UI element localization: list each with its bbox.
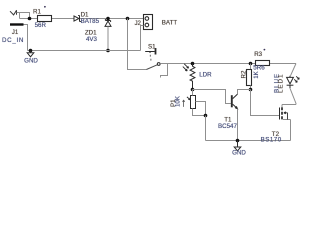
- svg-text:R2: R2: [240, 70, 247, 78]
- connector J2: [144, 15, 153, 30]
- svg-text:BATT: BATT: [162, 20, 178, 27]
- ground symbol left: [27, 51, 34, 57]
- svg-text:DC_IN: DC_IN: [2, 37, 24, 44]
- svg-text:R1: R1: [33, 9, 41, 16]
- node LDR bottom junction: [191, 88, 195, 92]
- R3 asterisk: [264, 49, 266, 51]
- svg-text:5R6: 5R6: [253, 64, 265, 71]
- wire P1 bottom: [193, 109, 206, 116]
- svg-text:S1: S1: [148, 43, 156, 50]
- wire mid rail: [168, 63, 297, 65]
- svg-text:4V3: 4V3: [86, 36, 98, 43]
- svg-text:R3: R3: [254, 51, 262, 58]
- wire base rail: [193, 90, 231, 104]
- wire top rail: [20, 18, 144, 20]
- wire R3 to LED diagonal: [291, 64, 297, 76]
- node ZD1 top junction: [106, 17, 110, 21]
- zener diode ZD1: [105, 19, 111, 26]
- resistor R3: [256, 61, 270, 66]
- node ground attach left: [29, 49, 33, 53]
- wire P1 wiper: [196, 102, 206, 116]
- connector J1 jack plug: [10, 10, 30, 50]
- wire ZD1 anode to ground rail: [107, 26, 109, 50]
- wire from top rail down to switch feed: [128, 19, 147, 70]
- wire T1 emitter down: [237, 109, 239, 141]
- wire switch output: [160, 63, 167, 65]
- svg-text:LDR: LDR: [199, 72, 212, 79]
- svg-text:BAT85: BAT85: [81, 18, 100, 25]
- wire R2 node to T2 gate: [251, 90, 280, 116]
- trimpot P1: [183, 96, 196, 109]
- LDR photoresistor: [183, 64, 195, 90]
- svg-text:GND: GND: [24, 58, 38, 65]
- svg-text:LED1: LED1: [278, 74, 285, 93]
- node ground junction bottom: [236, 139, 240, 143]
- svg-text:1K: 1K: [253, 70, 260, 78]
- svg-text:56R: 56R: [35, 22, 47, 29]
- wire P1 node to bottom rail: [205, 116, 207, 141]
- R1 asterisk: [44, 6, 46, 8]
- svg-text:BC547: BC547: [218, 123, 237, 130]
- svg-text:GND: GND: [232, 150, 246, 157]
- node R2 bottom junction: [249, 88, 253, 92]
- wire J2 bottom pin to ground rail: [141, 26, 144, 51]
- wire R2 node to T1 collector: [238, 90, 251, 95]
- node LDR top junction: [191, 62, 195, 66]
- svg-text:J1: J1: [12, 29, 19, 36]
- wire T2 source to bottom rail: [290, 120, 292, 141]
- transistor T2 BS170 NMOS: [280, 105, 297, 120]
- node jack output junction: [28, 17, 32, 21]
- svg-text:BS170: BS170: [261, 136, 282, 143]
- node J2 branch junction: [126, 17, 130, 21]
- LED1 blue LED: [287, 76, 300, 89]
- node R3 junction on mid rail: [249, 62, 253, 66]
- ground symbol bottom: [234, 141, 241, 151]
- wire P1 top stem: [192, 90, 194, 96]
- node P1 junction: [204, 114, 208, 118]
- wire LED cathode to T2 drain: [290, 88, 296, 104]
- resistor R1: [38, 16, 52, 22]
- svg-text:10K: 10K: [175, 95, 182, 107]
- wire bottom rail: [206, 140, 291, 142]
- diode D1 BAT85 schottky: [74, 16, 81, 22]
- wire switch second throw stub: [161, 64, 168, 78]
- transistor T1 BC547 NPN: [232, 94, 238, 109]
- switch S1: [145, 48, 160, 70]
- node ZD1 anode ground junction: [106, 49, 110, 53]
- resistor R2: [247, 64, 252, 90]
- wire ground rail left: [28, 50, 141, 52]
